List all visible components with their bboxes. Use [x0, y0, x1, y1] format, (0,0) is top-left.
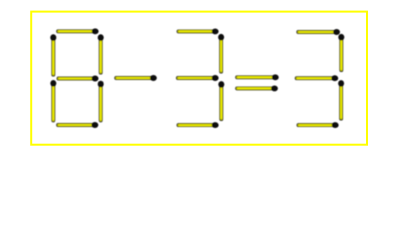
matchstick: minus sign — [116, 75, 157, 81]
matchstick: digit 8 bottom-right vertical — [98, 81, 104, 121]
matchstick: second digit 3 top-right vertical — [338, 34, 344, 70]
matchstick: equals sign top bar — [237, 74, 279, 80]
matchstick: first digit 3 bottom horizontal — [179, 122, 219, 128]
matchstick: digit 8 bottom-left vertical — [50, 80, 56, 120]
matchstick: second digit 3 bottom-right vertical — [338, 80, 344, 119]
matchstick: digit 8 bottom horizontal — [58, 122, 98, 128]
matchstick: digit 8 top horizontal — [58, 28, 99, 34]
matchstick: second digit 3 bottom horizontal — [299, 122, 339, 128]
matchstick: first digit 3 top-right vertical — [218, 34, 224, 72]
matchstick: first digit 3 top horizontal — [179, 28, 219, 34]
matchstick: digit 8 top-right vertical — [98, 34, 104, 72]
matchstick: digit 8 top-left vertical — [50, 34, 56, 74]
matchstick: second digit 3 top horizontal — [298, 29, 340, 35]
matchstick: equals sign bottom bar — [237, 85, 278, 91]
matchstick: second digit 3 middle horizontal — [297, 75, 338, 81]
yellow frame border — [31, 12, 367, 145]
matchstick: first digit 3 bottom-right vertical — [218, 81, 224, 119]
matchstick: first digit 3 middle horizontal — [178, 75, 219, 81]
matchstick: digit 8 middle horizontal — [59, 76, 99, 82]
